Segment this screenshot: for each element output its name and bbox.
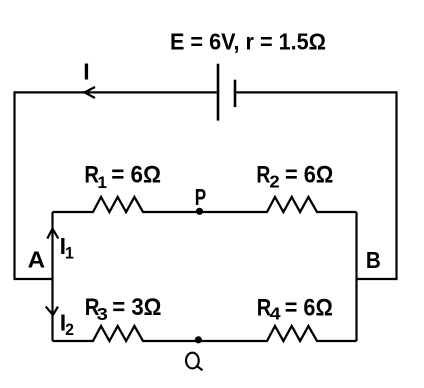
svg-text:= 6Ω: = 6Ω <box>111 162 161 189</box>
svg-text:P: P <box>195 184 206 210</box>
svg-text:B: B <box>366 247 381 273</box>
svg-text:A: A <box>28 247 46 273</box>
svg-text:= 3Ω: = 3Ω <box>112 294 161 321</box>
svg-text:2: 2 <box>65 320 74 339</box>
svg-text:1: 1 <box>97 173 107 192</box>
svg-text:4: 4 <box>270 304 281 324</box>
svg-text:1: 1 <box>65 244 74 262</box>
svg-text:I: I <box>83 59 89 85</box>
svg-text:2: 2 <box>269 171 280 191</box>
svg-text:= 6Ω: = 6Ω <box>285 294 333 321</box>
svg-text:E = 6V, r = 1.5Ω: E = 6V, r = 1.5Ω <box>170 29 326 55</box>
svg-text:= 6Ω: = 6Ω <box>285 161 333 188</box>
svg-text:3: 3 <box>97 304 109 324</box>
